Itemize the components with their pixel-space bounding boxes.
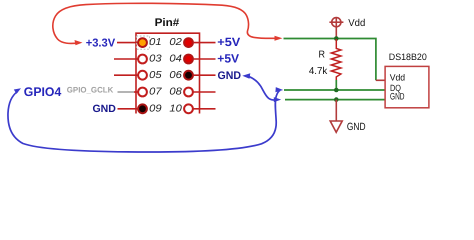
wire DQ net (284, 89, 386, 91)
svg-text:01: 01 (149, 37, 161, 48)
resistor R 4.7k (331, 39, 341, 80)
svg-text:+5V: +5V (217, 35, 240, 49)
wire pin03 stub (114, 58, 139, 60)
wire +3.3V stub (117, 42, 139, 44)
pin 03 (138, 55, 147, 64)
pin 06 (GND) (184, 71, 193, 80)
annotation arrow to +3.3V (53, 3, 276, 43)
svg-text:DS18B20: DS18B20 (389, 52, 427, 62)
wire pin02 stub (193, 42, 216, 44)
wire GND net (285, 99, 386, 101)
svg-text:Vdd: Vdd (390, 73, 405, 83)
svg-text:GPIO_GCLK: GPIO_GCLK (67, 85, 114, 94)
resistor bottom lead (green) (335, 80, 337, 90)
svg-text:GND: GND (390, 91, 405, 102)
junction resistor/DQ (334, 88, 339, 93)
svg-text:05: 05 (149, 70, 162, 81)
svg-text:09: 09 (149, 104, 162, 115)
wire GND left stub to pin09 (118, 108, 140, 110)
svg-text:07: 07 (149, 87, 162, 98)
wire pin04 stub (193, 58, 216, 60)
svg-text:GND: GND (347, 121, 366, 133)
pin 10 (184, 104, 193, 113)
svg-text:Pin#: Pin# (155, 17, 180, 29)
wire pin08 stub (193, 91, 216, 93)
annotation arrow GPIO4 to DQ wire (8, 90, 280, 152)
svg-text:GPIO4: GPIO4 (24, 85, 62, 99)
pin 01 (3.3V) (138, 38, 147, 47)
pin 04 (+5V) (184, 55, 193, 64)
wire Vdd net (284, 39, 376, 81)
svg-text:08: 08 (169, 87, 182, 98)
wire GPIO_GCLK to pin07 (gray) (118, 91, 135, 93)
svg-text:4.7k: 4.7k (309, 66, 328, 77)
power port Vdd (329, 18, 343, 39)
svg-text:Vdd: Vdd (348, 18, 365, 29)
junction GND/ground (334, 97, 339, 102)
pin 01 selection box (136, 36, 149, 49)
pin 08 (184, 88, 193, 97)
svg-text:06: 06 (169, 70, 182, 81)
ground symbol (335, 100, 337, 121)
pin 02 (+5V) (184, 38, 193, 47)
svg-text:+3.3V: +3.3V (86, 38, 116, 50)
wire pin05 stub (114, 74, 139, 76)
svg-text:04: 04 (169, 54, 182, 65)
wire pin06 stub (193, 74, 216, 76)
svg-text:GND: GND (218, 70, 242, 82)
sensor U1 DS18B20 box (385, 66, 429, 107)
pin 05 (138, 71, 147, 80)
connector J1 pin header outline (136, 33, 200, 113)
junction Vdd/resistor (334, 36, 339, 41)
svg-text:GND: GND (93, 103, 117, 115)
svg-text:02: 02 (169, 37, 182, 48)
svg-text:10: 10 (169, 104, 182, 115)
wire pin10 stub (193, 108, 216, 110)
svg-text:R: R (319, 50, 326, 61)
svg-text:+5V: +5V (217, 52, 239, 66)
svg-text:03: 03 (149, 54, 162, 65)
sensor Vdd pin lead (376, 79, 386, 81)
annotation arrow GND(pin6) to GND wire (249, 77, 277, 100)
pin 07 (GPIO4) (138, 88, 147, 97)
pin 09 (GND) (138, 104, 147, 113)
